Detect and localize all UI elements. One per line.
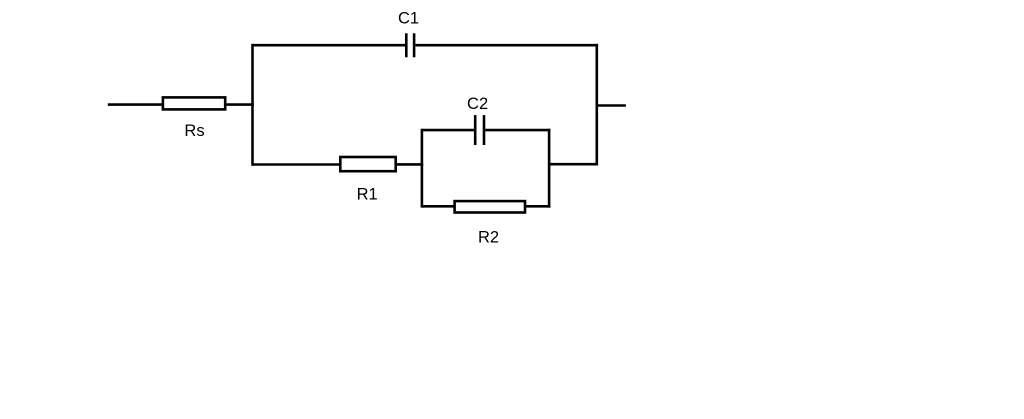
wire inner bottom right segment — [526, 205, 551, 208]
resistor R2 — [455, 201, 525, 212]
wire inner right vertical — [548, 129, 551, 208]
wire Rs to left junction — [226, 103, 254, 106]
wire inner top left segment — [422, 129, 474, 132]
wire inner left vertical — [421, 129, 424, 208]
wire inner bottom left segment — [422, 205, 454, 208]
wire inner network to right vertical — [549, 163, 597, 166]
svg-text:Rs: Rs — [184, 122, 204, 140]
wire input lead — [108, 103, 162, 106]
svg-text:C1: C1 — [398, 10, 419, 28]
svg-text:R2: R2 — [478, 229, 499, 247]
resistor R1 — [340, 157, 395, 171]
wire R1 to inner network — [396, 163, 423, 166]
wire right vertical branch — [595, 44, 598, 166]
wire left vertical branch — [251, 44, 254, 166]
capacitor C1 — [406, 33, 414, 57]
svg-text:R1: R1 — [357, 185, 378, 203]
wire top branch right segment — [415, 44, 598, 47]
svg-text:C2: C2 — [467, 95, 488, 113]
wire bottom branch left segment — [253, 163, 341, 166]
wire output lead — [597, 104, 626, 107]
capacitor C2 — [475, 115, 484, 145]
wire inner top right segment — [485, 129, 550, 132]
wire top branch left segment — [253, 44, 406, 47]
resistor Rs — [163, 97, 225, 109]
